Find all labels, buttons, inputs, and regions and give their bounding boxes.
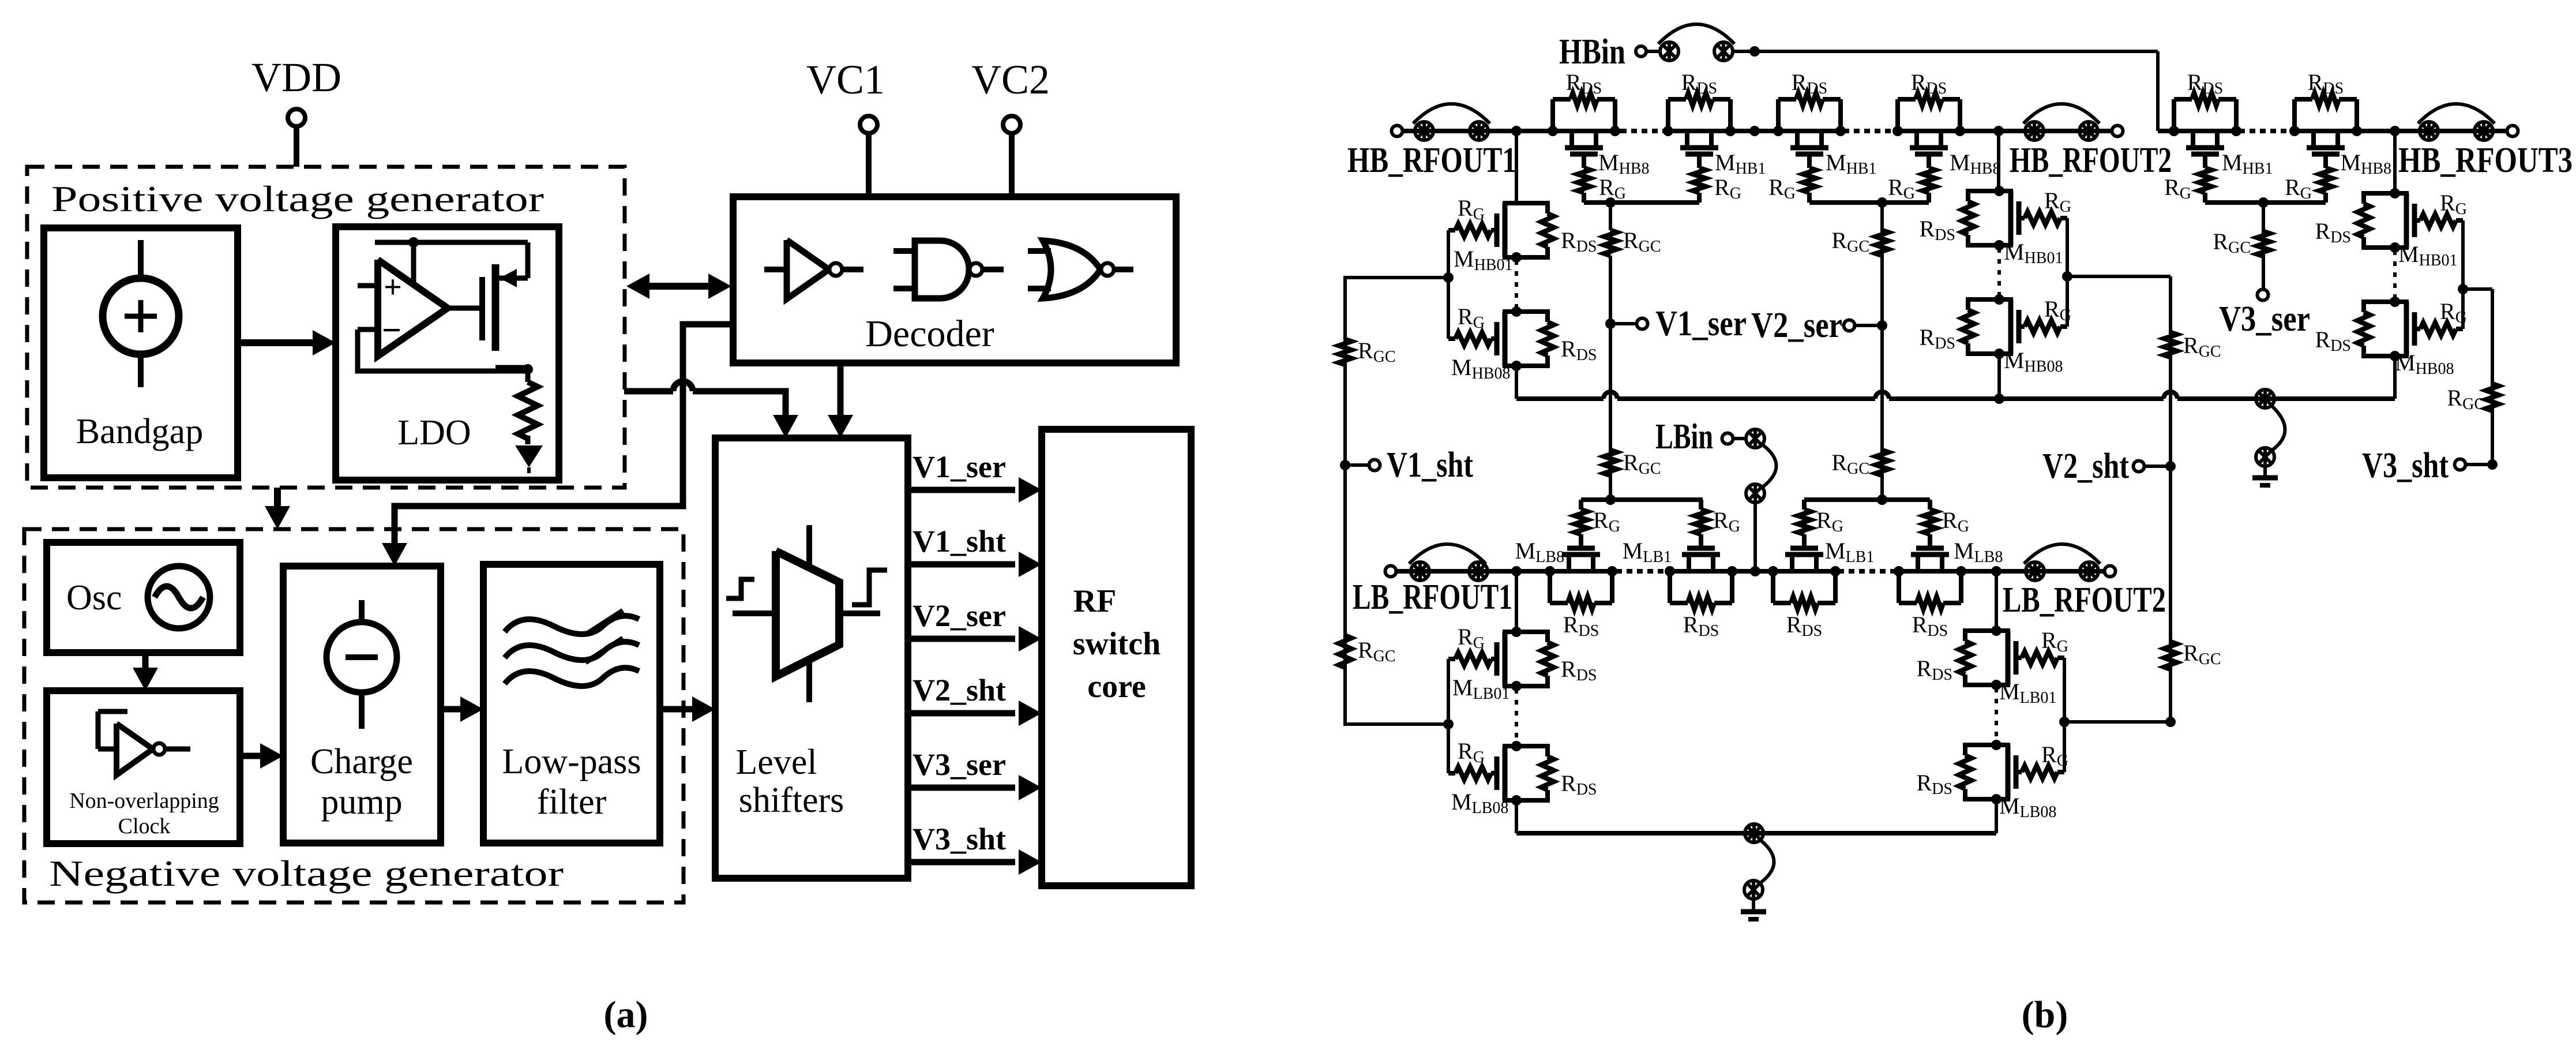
svg-text:V1_sht: V1_sht xyxy=(913,524,1006,559)
svg-text:V3_sht: V3_sht xyxy=(2362,446,2449,485)
svg-text:V3_sht: V3_sht xyxy=(913,822,1006,856)
svg-text:+: + xyxy=(384,269,402,305)
svg-text:Positive voltage generator: Positive voltage generator xyxy=(51,178,544,219)
svg-text:−: − xyxy=(382,311,401,349)
svg-text:pump: pump xyxy=(321,782,402,822)
svg-text:VC1: VC1 xyxy=(806,57,885,103)
svg-text:V2_ser: V2_ser xyxy=(1751,306,1842,345)
svg-text:Charge: Charge xyxy=(310,742,413,781)
svg-text:VDD: VDD xyxy=(251,54,341,100)
svg-text:Bandgap: Bandgap xyxy=(76,412,203,451)
svg-text:VC2: VC2 xyxy=(971,57,1050,103)
svg-text:V2_ser: V2_ser xyxy=(913,598,1006,633)
svg-text:V3_ser: V3_ser xyxy=(913,747,1006,782)
svg-text:Decoder: Decoder xyxy=(865,313,994,355)
svg-text:LB_RFOUT1: LB_RFOUT1 xyxy=(1353,578,1512,617)
svg-text:HB_RFOUT3: HB_RFOUT3 xyxy=(2398,141,2573,180)
svg-text:V2_sht: V2_sht xyxy=(913,673,1006,707)
svg-text:HB_RFOUT1: HB_RFOUT1 xyxy=(1347,141,1516,180)
svg-text:V3_ser: V3_ser xyxy=(2219,299,2310,339)
svg-text:Clock: Clock xyxy=(118,814,171,838)
svg-text:LBin: LBin xyxy=(1655,417,1713,456)
svg-text:Level: Level xyxy=(735,743,817,782)
svg-text:Negative voltage generator: Negative voltage generator xyxy=(49,853,564,894)
svg-text:V1_sht: V1_sht xyxy=(1387,445,1473,485)
svg-text:LB_RFOUT2: LB_RFOUT2 xyxy=(2003,580,2166,620)
svg-text:HB_RFOUT2: HB_RFOUT2 xyxy=(2010,141,2172,180)
svg-text:(a): (a) xyxy=(604,994,648,1036)
svg-text:filter: filter xyxy=(537,782,607,822)
svg-text:LDO: LDO xyxy=(397,413,471,452)
svg-text:shifters: shifters xyxy=(739,781,844,820)
svg-text:switch: switch xyxy=(1073,626,1161,662)
svg-text:RF: RF xyxy=(1073,583,1117,619)
svg-text:V1_ser: V1_ser xyxy=(1655,304,1747,343)
svg-text:V1_ser: V1_ser xyxy=(913,450,1006,484)
svg-text:Osc: Osc xyxy=(66,578,122,617)
svg-text:core: core xyxy=(1087,669,1146,705)
svg-text:(b): (b) xyxy=(2022,994,2068,1036)
svg-text:Low-pass: Low-pass xyxy=(502,742,641,781)
svg-text:Non-overlapping: Non-overlapping xyxy=(69,789,219,813)
svg-text:HBin: HBin xyxy=(1559,32,1625,72)
svg-text:V2_sht: V2_sht xyxy=(2042,447,2129,486)
